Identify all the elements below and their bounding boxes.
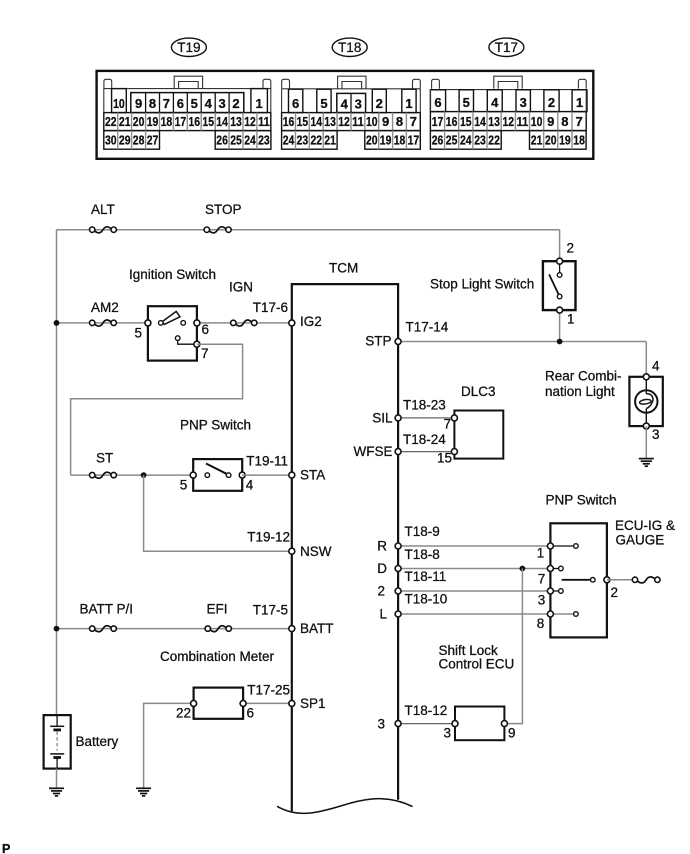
fuse ALT (90, 227, 117, 233)
svg-text:19: 19 (559, 133, 571, 148)
corner tab T18 right (413, 79, 421, 89)
contact PNP contact right (226, 473, 231, 478)
pin rear light pin 3 (643, 423, 649, 429)
pin TCM SP1 (289, 700, 295, 706)
pin PNP right pin 1 (547, 543, 553, 549)
svg-text:nation Light: nation Light (545, 384, 615, 399)
fuse IGN (231, 320, 257, 326)
ignition switch SW1 box (148, 306, 197, 360)
svg-text:3: 3 (355, 97, 362, 112)
DLC3 box (454, 411, 503, 459)
svg-text:23: 23 (258, 133, 270, 148)
svg-text:T19-11: T19-11 (246, 454, 288, 469)
wire BATT wire to TCM (57, 628, 292, 630)
svg-text:T18-23: T18-23 (403, 398, 446, 413)
fuse AM2 (90, 320, 117, 326)
wire top feed ALT/STOP horizontal (57, 229, 560, 231)
ground battery (49, 788, 64, 796)
svg-text:6: 6 (202, 322, 210, 337)
junction bus-BATT (54, 626, 60, 632)
connector T19 body top line (104, 88, 271, 90)
pin PNP right pin 7 (547, 566, 553, 572)
PNP right internals (550, 546, 590, 614)
pin ignition pin 6 (194, 320, 200, 326)
svg-text:1: 1 (576, 95, 583, 110)
svg-text:12: 12 (244, 114, 256, 129)
wire combination meter pin22 to ground (144, 703, 194, 788)
pin stop light pin 2 (557, 258, 563, 264)
svg-text:2: 2 (611, 585, 619, 600)
lamp symbol (635, 390, 657, 412)
corner tab T18 left (282, 79, 290, 89)
svg-text:9: 9 (135, 96, 142, 111)
svg-text:4: 4 (491, 95, 499, 110)
pin TCM WFSE (395, 449, 401, 455)
pin TCM L (395, 611, 401, 617)
wire battery to ground (56, 769, 58, 789)
svg-text:4: 4 (205, 96, 213, 111)
corner tab T19 left (104, 79, 112, 89)
svg-text:9: 9 (547, 114, 554, 129)
wire pin2 to ECU-IG fuse (607, 579, 632, 581)
svg-text:26: 26 (432, 133, 444, 148)
pin PNP right pin 2 (604, 577, 610, 583)
svg-text:9: 9 (382, 114, 389, 129)
svg-text:9: 9 (508, 726, 516, 741)
connector cell row T18 middle (282, 113, 421, 131)
svg-text:PNP Switch: PNP Switch (546, 493, 617, 508)
svg-text:6: 6 (247, 706, 255, 721)
connector label ellipse T17 (489, 38, 524, 56)
svg-text:8: 8 (561, 114, 568, 129)
connector cell row T17 middle (430, 112, 586, 131)
combination meter box (194, 688, 244, 719)
wire 2 wire to PNP pin 3 (398, 590, 550, 592)
svg-text:BATT P/I: BATT P/I (80, 602, 134, 617)
ground rear light (639, 459, 654, 467)
svg-text:ST: ST (96, 451, 113, 466)
svg-text:Rear Combi-: Rear Combi- (545, 369, 622, 384)
svg-text:2: 2 (548, 95, 555, 110)
connector cell T19-10 (112, 89, 127, 113)
svg-text:L: L (379, 607, 387, 622)
svg-text:NSW: NSW (300, 544, 332, 559)
svg-text:19: 19 (380, 133, 392, 148)
svg-text:Control ECU: Control ECU (439, 657, 515, 672)
pin combination meter pin 6 (240, 700, 246, 706)
wire junction down to TCM NSW (144, 475, 292, 551)
svg-text:11: 11 (258, 114, 270, 129)
connector cell T17-4top (487, 90, 502, 112)
svg-text:PNP Switch: PNP Switch (180, 418, 251, 433)
wire WFSE wire to DLC3 pin 15 (398, 451, 454, 453)
svg-text:13: 13 (324, 114, 336, 129)
connector cell T17-6top (430, 90, 445, 112)
connector label ellipse T19 (171, 38, 206, 56)
svg-text:12: 12 (503, 114, 515, 129)
connector cell row T19 bottom left (104, 131, 160, 150)
svg-text:15: 15 (202, 114, 214, 129)
connector label ellipse T18 (332, 38, 367, 56)
wire IGN wire to TCM IG2 (197, 322, 292, 324)
corner tab T17 right (578, 79, 586, 89)
wire L wire to PNP pin 8 (398, 613, 550, 615)
svg-text:STP: STP (365, 334, 391, 349)
svg-text:WFSE: WFSE (354, 444, 393, 459)
svg-text:T18-8: T18-8 (405, 547, 440, 562)
svg-text:STA: STA (300, 468, 325, 483)
wire D junction down to shift lock pin 9 (504, 569, 522, 724)
PNP switch blade (206, 464, 228, 475)
latch tab T18 (338, 76, 366, 89)
svg-text:21: 21 (531, 133, 543, 148)
svg-text:12: 12 (338, 114, 350, 129)
contact stop light contact bottom (557, 294, 562, 299)
latch tab T17 (494, 76, 522, 89)
wire 3 wire to shift lock pin 3 (398, 723, 455, 725)
svg-text:P: P (2, 842, 10, 854)
svg-text:2: 2 (232, 96, 239, 111)
svg-text:Combination Meter: Combination Meter (160, 649, 275, 664)
svg-text:22: 22 (488, 133, 500, 148)
svg-text:3: 3 (377, 717, 385, 732)
pin DLC3 pin 7 (451, 415, 457, 421)
svg-text:1: 1 (567, 312, 575, 327)
svg-text:24: 24 (460, 133, 472, 148)
svg-text:17: 17 (432, 114, 444, 129)
svg-text:7: 7 (163, 96, 170, 111)
pin TCM 2 (395, 588, 401, 594)
connector cell T17-5top (459, 90, 473, 112)
pin TCM 3 (395, 721, 401, 727)
contact PNP right common contact (591, 578, 596, 583)
connector cell row T19 bottom right (215, 131, 271, 150)
PNP switch right box (550, 523, 607, 637)
svg-text:T18: T18 (338, 40, 361, 55)
svg-text:7: 7 (538, 572, 546, 587)
svg-text:11: 11 (517, 114, 529, 129)
svg-text:2: 2 (377, 584, 385, 599)
svg-text:1: 1 (405, 96, 412, 111)
svg-text:T17-6: T17-6 (253, 300, 288, 315)
svg-text:16: 16 (189, 114, 201, 129)
svg-text:8: 8 (149, 96, 156, 111)
shift lock control ECU box (455, 707, 504, 741)
contact PNP right contact 8 (574, 612, 579, 617)
svg-text:23: 23 (297, 133, 309, 148)
svg-text:EFI: EFI (207, 602, 228, 617)
svg-text:T17-25: T17-25 (247, 683, 290, 698)
rear combination light box (629, 377, 662, 426)
svg-text:R: R (377, 539, 387, 554)
svg-text:Battery: Battery (76, 734, 119, 749)
svg-text:ALT: ALT (91, 202, 115, 217)
svg-text:T18-9: T18-9 (405, 524, 440, 539)
svg-text:DLC3: DLC3 (461, 384, 496, 399)
pin TCM BATT (289, 626, 295, 632)
battery cells (50, 715, 64, 769)
pin ignition pin 7 (194, 341, 200, 347)
wire left battery bus vertical (56, 230, 58, 715)
svg-text:4: 4 (341, 97, 349, 112)
connector cell row T19 middle (104, 113, 271, 131)
svg-text:AM2: AM2 (91, 300, 119, 315)
svg-text:IG2: IG2 (300, 314, 322, 329)
svg-text:23: 23 (474, 133, 486, 148)
fuse ECU-IG (632, 577, 660, 583)
contact PNP right contact 7 (559, 566, 564, 571)
svg-text:SIL: SIL (372, 411, 393, 426)
svg-text:T19-12: T19-12 (247, 530, 290, 545)
svg-text:T18-24: T18-24 (403, 432, 446, 447)
svg-text:19: 19 (147, 114, 159, 129)
svg-text:25: 25 (446, 133, 458, 148)
fuse STOP (204, 227, 231, 233)
contact PNP right contact 1 (574, 544, 579, 549)
pin PNP right pin 8 (547, 611, 553, 617)
svg-text:5: 5 (191, 96, 198, 111)
svg-text:20: 20 (133, 114, 145, 129)
latch tab T19 (174, 76, 202, 89)
svg-text:SP1: SP1 (300, 696, 326, 711)
contact PNP right contact 3 (559, 589, 564, 594)
pin combination meter pin 22 (191, 700, 197, 706)
svg-text:1: 1 (255, 96, 262, 111)
junction ST-NSW junction (141, 472, 147, 478)
svg-text:30: 30 (105, 133, 117, 148)
svg-text:11: 11 (352, 114, 364, 129)
wire SIL wire to DLC3 pin 7 (398, 417, 454, 419)
TCM box outline (292, 284, 398, 811)
battery box (44, 715, 71, 769)
svg-text:T19: T19 (177, 40, 200, 55)
connector T17 body top line (430, 89, 586, 91)
pin TCM NSW (289, 548, 295, 554)
svg-text:20: 20 (366, 133, 378, 148)
contact ignition contact ST (175, 336, 180, 341)
connector cell row T18 bottom right (365, 131, 421, 150)
contact ignition contact AM2 (159, 321, 164, 326)
wire ST wire to PNP switch (71, 474, 194, 476)
wire combination meter pin6 to TCM SP1 (243, 702, 292, 704)
pin TCM SIL (395, 415, 401, 421)
connector cell T17-1top (572, 90, 587, 112)
fuse ST (90, 472, 117, 478)
wire PNP pin4 to TCM STA (242, 474, 292, 476)
connector cell row T17 bottom left (430, 131, 501, 150)
fuse BATT P/I (90, 626, 117, 632)
svg-text:15: 15 (297, 114, 309, 129)
svg-text:BATT: BATT (300, 621, 334, 636)
svg-text:14: 14 (216, 114, 228, 129)
pin stop light pin 1 (557, 307, 563, 313)
connector cell T17-2top (544, 90, 559, 112)
pin TCM R (395, 543, 401, 549)
wire rear light pin3 to ground (645, 426, 647, 459)
svg-text:4: 4 (652, 359, 660, 374)
svg-text:10: 10 (366, 114, 378, 129)
svg-text:7: 7 (410, 114, 417, 129)
svg-text:3: 3 (443, 726, 451, 741)
svg-text:7: 7 (575, 114, 582, 129)
svg-text:STOP: STOP (205, 202, 242, 217)
svg-text:22: 22 (311, 133, 323, 148)
connector cell row T18 bottom left (282, 131, 338, 150)
ground combination meter (136, 788, 151, 796)
connector cell T17-3top (516, 90, 530, 112)
svg-text:D: D (377, 561, 387, 576)
pin TCM IG2 (289, 320, 295, 326)
svg-text:22: 22 (176, 706, 191, 721)
stop light switch box (543, 261, 576, 310)
svg-text:T18-10: T18-10 (405, 592, 448, 607)
svg-text:Ignition Switch: Ignition Switch (129, 267, 216, 282)
wire down to stop light switch pin 2 (559, 230, 561, 262)
svg-text:TCM: TCM (329, 261, 358, 276)
svg-text:3: 3 (520, 95, 527, 110)
svg-text:15: 15 (437, 451, 452, 466)
svg-text:Stop Light Switch: Stop Light Switch (430, 277, 534, 292)
svg-text:4: 4 (246, 478, 254, 493)
wire AM2 wire to ignition switch (57, 322, 148, 324)
wire down to rear light pin 4 (645, 342, 647, 377)
svg-text:2: 2 (376, 96, 383, 111)
connector T19 body side edges (103, 89, 105, 113)
svg-text:21: 21 (119, 114, 131, 129)
svg-text:8: 8 (537, 616, 545, 631)
junction D junction (520, 566, 526, 572)
pin PNP pin 5 (190, 472, 196, 478)
svg-text:14: 14 (311, 114, 323, 129)
svg-text:24: 24 (244, 133, 256, 148)
pin TCM STA (289, 472, 295, 478)
svg-text:T17: T17 (495, 40, 518, 55)
pin shift lock pin 3 (452, 721, 458, 727)
contact stop light contact top (557, 273, 562, 278)
connector cell T18-5top (317, 89, 331, 112)
svg-text:17: 17 (175, 114, 187, 129)
pin PNP pin 4 (239, 472, 245, 478)
svg-text:13: 13 (230, 114, 242, 129)
svg-text:24: 24 (283, 133, 295, 148)
svg-text:21: 21 (324, 133, 336, 148)
svg-text:3: 3 (652, 427, 660, 442)
svg-text:6: 6 (177, 96, 184, 111)
pin DLC3 pin 15 (451, 449, 457, 455)
wire STP wire to rear combination light (398, 341, 646, 343)
svg-text:T18-11: T18-11 (405, 569, 447, 584)
svg-text:T18-12: T18-12 (405, 703, 448, 718)
wire D wire to PNP pin 7 (398, 568, 550, 570)
junction STP junction (557, 339, 563, 345)
connector T17 body side edges (429, 90, 431, 112)
corner tab T19 right (263, 79, 271, 89)
wire ignition pin7 to ST feed (71, 344, 243, 475)
rear light internal wires (645, 377, 647, 394)
svg-text:18: 18 (394, 133, 406, 148)
svg-text:3: 3 (218, 96, 225, 111)
contact PNP contact left (205, 473, 210, 478)
connector T18 group 4-3 (337, 93, 366, 112)
svg-text:16: 16 (446, 114, 458, 129)
pin ignition pin 5 (145, 320, 151, 326)
svg-text:18: 18 (573, 133, 585, 148)
wire stop light switch pin1 down (559, 310, 561, 341)
svg-text:5: 5 (463, 95, 470, 110)
svg-text:18: 18 (161, 114, 173, 129)
svg-text:20: 20 (545, 133, 557, 148)
connector T18 body side edges (281, 89, 283, 113)
connector cell T18-6top (289, 89, 303, 112)
svg-text:10: 10 (113, 96, 125, 111)
connector cell T18-2top (372, 89, 386, 112)
svg-text:3: 3 (538, 593, 546, 608)
connector cell T18-1top (402, 89, 416, 112)
svg-text:T17-14: T17-14 (406, 320, 449, 335)
svg-text:5: 5 (320, 96, 327, 111)
svg-text:16: 16 (283, 114, 295, 129)
svg-text:15: 15 (460, 114, 472, 129)
TCM bottom wave (277, 799, 413, 814)
wire ignition ST contact to pin 7 (178, 340, 197, 344)
pin shift lock pin 9 (501, 721, 507, 727)
pin rear light pin 4 (643, 374, 649, 380)
svg-text:27: 27 (147, 133, 159, 148)
svg-text:28: 28 (133, 133, 145, 148)
connector block outer frame (97, 71, 594, 159)
svg-text:1: 1 (537, 546, 545, 561)
svg-text:5: 5 (135, 326, 143, 341)
pin TCM STP (395, 339, 401, 345)
svg-text:7: 7 (201, 346, 209, 361)
svg-text:8: 8 (396, 114, 403, 129)
connector cell T19-1 (251, 89, 268, 113)
svg-text:13: 13 (488, 114, 500, 129)
contact ignition contact IG (181, 321, 186, 326)
PNP switch SW2 box (193, 459, 242, 491)
corner tab T17 left (432, 79, 440, 89)
svg-text:25: 25 (230, 133, 242, 148)
pin TCM D (395, 566, 401, 572)
svg-text:10: 10 (531, 114, 543, 129)
svg-text:17: 17 (408, 133, 420, 148)
junction bus-AM2 (54, 320, 60, 326)
svg-text:6: 6 (434, 95, 441, 110)
fuse EFI (205, 626, 231, 632)
svg-text:6: 6 (292, 96, 299, 111)
pin PNP right pin 3 (547, 588, 553, 594)
connector T19 group 9-2 (131, 93, 244, 113)
svg-text:ECU-IG &: ECU-IG & (615, 518, 675, 533)
svg-text:29: 29 (119, 133, 131, 148)
svg-text:GAUGE: GAUGE (616, 533, 665, 548)
svg-text:7: 7 (443, 417, 451, 432)
svg-text:14: 14 (474, 114, 486, 129)
ignition switch blade (162, 311, 180, 324)
svg-text:22: 22 (105, 114, 117, 129)
svg-text:IGN: IGN (229, 280, 253, 295)
svg-text:2: 2 (567, 241, 575, 256)
svg-text:26: 26 (216, 133, 228, 148)
connector T18 body top line (282, 88, 421, 90)
svg-text:5: 5 (180, 478, 188, 493)
stop light switch blade (549, 274, 558, 294)
wire R wire to PNP pin 1 (398, 545, 550, 547)
stop light switch stub (559, 264, 561, 273)
connector cell row T17 bottom right (530, 131, 587, 150)
svg-text:T17-5: T17-5 (253, 603, 288, 618)
